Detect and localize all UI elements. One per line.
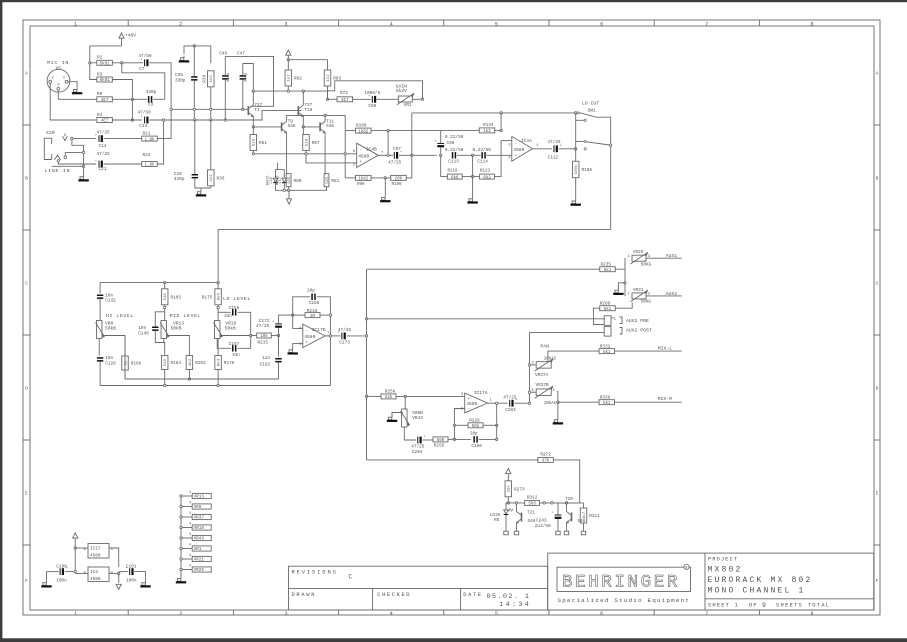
svg-text:4580: 4580	[90, 577, 101, 582]
resistor R175	[202, 289, 222, 305]
wire C7 to bus	[149, 63, 171, 110]
registered trademark symbol	[684, 564, 689, 569]
wire jack sleeve to ground rail	[52, 165, 84, 167]
resistor R82	[285, 70, 302, 86]
svg-text:R99: R99	[357, 183, 365, 187]
node node r83 bottom	[326, 98, 328, 100]
resistor R134	[479, 123, 495, 134]
svg-text:BEHRINGER: BEHRINGER	[562, 573, 680, 593]
wire R123 right up	[494, 141, 501, 177]
wire C14 to R21	[104, 138, 142, 140]
svg-text:510: 510	[164, 293, 168, 301]
svg-text:4: 4	[189, 502, 191, 506]
wire R273 node to R312	[508, 502, 524, 504]
ground fader ground	[387, 415, 397, 422]
svg-text:DRAWN: DRAWN	[292, 592, 317, 598]
wire rail to R256	[367, 395, 381, 397]
svg-text:R103: R103	[170, 295, 181, 300]
svg-text:PROJECT: PROJECT	[708, 557, 738, 563]
bracket marks	[620, 317, 623, 324]
diode C16 BAV21	[273, 174, 278, 186]
wire R119-R123	[462, 176, 479, 178]
jack tip contact	[63, 134, 74, 141]
svg-text:3: 3	[284, 21, 287, 27]
svg-text:2u2/50: 2u2/50	[535, 524, 551, 529]
svg-text:47/25: 47/25	[97, 152, 111, 157]
svg-text:VR19: VR19	[194, 526, 205, 531]
node n br1	[283, 189, 285, 191]
resistor R226	[468, 423, 483, 429]
svg-text:8: 8	[810, 611, 813, 617]
node node fb1	[453, 438, 455, 440]
svg-text:R81: R81	[331, 179, 339, 184]
wire plus input	[346, 162, 357, 164]
svg-text:R36: R36	[217, 176, 225, 181]
wire R332 to MIX-L	[615, 350, 682, 352]
potentiometer VR25	[628, 250, 652, 267]
svg-text:2: 2	[179, 611, 182, 617]
svg-text:4: 4	[189, 554, 191, 558]
svg-text:4: 4	[189, 544, 191, 548]
svg-text:VR43: VR43	[194, 537, 205, 542]
T21 emitter ground	[516, 525, 518, 529]
svg-text:10n: 10n	[138, 326, 146, 331]
svg-text:R134: R134	[483, 123, 494, 128]
potentiometer VR37A	[532, 356, 557, 378]
resistor R338	[599, 396, 615, 406]
wire C112 right	[559, 148, 576, 150]
svg-text:IC4B: IC4B	[366, 146, 377, 152]
wire R72 to C60	[353, 98, 371, 100]
wire VR13 bottom	[163, 339, 166, 355]
node node r67b	[305, 153, 307, 155]
wire C283 to pan rail	[514, 402, 529, 404]
node n b4	[224, 119, 226, 121]
svg-text:4580: 4580	[513, 147, 524, 153]
svg-text:-: -	[305, 329, 308, 334]
ground mute gnd 2	[514, 529, 518, 535]
svg-text:10kAC: 10kAC	[544, 356, 557, 361]
svg-text:4: 4	[553, 389, 555, 393]
svg-text:VR31: VR31	[633, 288, 644, 293]
resistor R51	[250, 135, 267, 151]
svg-text:0.22/50: 0.22/50	[445, 148, 464, 153]
wire R186 chain	[575, 149, 577, 162]
node n pan2	[528, 391, 530, 393]
supply +48V arrow	[119, 33, 124, 38]
svg-text:5: 5	[495, 611, 498, 617]
svg-text:R312: R312	[527, 495, 538, 500]
svg-text:VR25: VR25	[194, 568, 205, 573]
node n r82b	[287, 90, 289, 92]
svg-text:47/25: 47/25	[338, 328, 352, 333]
svg-text:LINE IN: LINE IN	[45, 168, 71, 174]
svg-text:AUX2 POST: AUX2 POST	[626, 328, 652, 334]
wire X5 pin1 to ground	[68, 82, 77, 88]
svg-text:OF: OF	[749, 603, 758, 609]
C196	[454, 438, 471, 440]
wire VR37A wiper to MIX-L	[548, 351, 599, 362]
svg-text:T20: T20	[565, 497, 573, 502]
svg-text:6: 6	[600, 21, 603, 27]
svg-text:VR37B: VR37B	[536, 383, 550, 388]
negative supply arrow	[288, 190, 290, 199]
svg-text:LO CUT: LO CUT	[582, 101, 599, 107]
node n mixr	[557, 401, 559, 403]
C166 loop	[293, 297, 311, 315]
svg-text:VR1: VR1	[194, 547, 202, 552]
node n b2	[194, 119, 196, 121]
node node vplus	[287, 59, 289, 61]
resistor R256	[381, 389, 396, 400]
wire riser from bypass	[500, 113, 502, 131]
capacitor C97	[388, 147, 402, 166]
resistor R255	[433, 437, 448, 443]
node n a25	[210, 108, 212, 110]
negative arrow ic power	[118, 574, 120, 584]
pot return VR8	[180, 502, 211, 510]
node node byp	[500, 112, 502, 114]
node node c35 top	[193, 45, 195, 47]
svg-text:R202: R202	[195, 361, 206, 366]
node node out	[387, 154, 389, 156]
wire C20 vertical	[194, 120, 196, 174]
wire R196 to output riser	[406, 155, 412, 178]
main post-EQ rail	[366, 269, 368, 460]
wire R83 bottom to R72 node	[327, 86, 329, 99]
svg-text:C162: C162	[260, 362, 271, 367]
node n a2	[193, 108, 195, 110]
+48V supply arrow	[121, 38, 123, 46]
ground filter ground	[467, 197, 477, 204]
op-amp IC4B	[353, 143, 383, 167]
svg-text:R119: R119	[448, 170, 459, 174]
C190	[47, 571, 59, 573]
svg-text:MX802: MX802	[708, 565, 743, 574]
node n eq1	[164, 281, 166, 283]
resistor R3	[97, 72, 113, 83]
svg-text:+: +	[514, 154, 517, 159]
wire top rail to R39	[194, 46, 211, 63]
svg-text:50kB: 50kB	[171, 325, 182, 331]
wire C173 to rail	[347, 335, 367, 337]
svg-text:VR37: VR37	[194, 516, 205, 521]
supply arrow ic power	[73, 533, 78, 538]
svg-text:50KG: 50KG	[641, 262, 652, 267]
wire riser to minus	[501, 140, 512, 142]
capacitor C3	[146, 90, 157, 107]
node node r215r	[277, 334, 279, 336]
resistor R9	[97, 92, 113, 103]
node node r51b	[252, 153, 254, 155]
capacitor C35	[175, 73, 198, 83]
wire R4 to C13	[112, 119, 141, 121]
svg-text:50kB: 50kB	[225, 325, 236, 331]
svg-text:CHECKED: CHECKED	[377, 592, 411, 598]
node n pan1	[528, 364, 530, 366]
svg-text:C16: C16	[270, 177, 274, 183]
supply arrow T block	[286, 50, 291, 55]
wire R215 right	[271, 335, 278, 337]
svg-text:+: +	[467, 397, 470, 402]
wire IC17 pins	[75, 547, 88, 549]
svg-text:20p: 20p	[307, 289, 315, 294]
capacitor C112	[547, 140, 561, 160]
column tick marks top/bottom	[128, 20, 759, 615]
svg-text:1.8k: 1.8k	[144, 137, 155, 142]
wire R3 right riser	[112, 80, 132, 121]
svg-text:SHEET 1: SHEET 1	[708, 603, 739, 609]
svg-text:B: B	[25, 175, 28, 181]
R100 feedback	[345, 130, 355, 132]
pot return VR43	[180, 533, 211, 541]
wire C47 top jog to T2 collector	[243, 64, 254, 92]
wire C3 wires	[132, 98, 147, 100]
svg-text:47/25: 47/25	[388, 161, 402, 166]
wire R168	[124, 336, 126, 357]
svg-text:2: 2	[189, 512, 191, 516]
node node minus in	[344, 153, 346, 155]
svg-text:R9: R9	[97, 92, 103, 97]
wire R22 up to row B	[157, 120, 163, 164]
node node filt gnd	[471, 175, 473, 177]
svg-text:VR1: VR1	[404, 103, 412, 108]
potentiometer VR37B	[532, 383, 557, 406]
svg-text:F: F	[25, 578, 28, 584]
svg-text:05.02. 1: 05.02. 1	[487, 593, 531, 601]
wire fader bottom	[404, 427, 416, 440]
svg-text:+: +	[95, 160, 97, 164]
wire IC4A out	[533, 148, 552, 150]
wire output column	[378, 154, 393, 156]
wire R176 bottom	[217, 370, 219, 386]
wire R269 left to switch	[594, 308, 605, 324]
svg-text:VR21: VR21	[194, 558, 205, 563]
svg-text:4: 4	[390, 611, 393, 617]
node node t20c	[565, 502, 567, 504]
svg-text:R269: R269	[600, 301, 611, 306]
svg-text:E: E	[25, 490, 28, 496]
svg-text:MONO CHANNEL 1: MONO CHANNEL 1	[708, 587, 806, 596]
wire C46 bottom to row B	[224, 80, 226, 120]
svg-text:MIC IN: MIC IN	[47, 60, 69, 66]
wire R269 to VR31 wiper	[615, 303, 632, 309]
svg-text:47/25: 47/25	[256, 324, 270, 329]
ground ic17b plus gnd	[288, 348, 298, 355]
svg-text:22k: 22k	[385, 395, 393, 400]
svg-text:C: C	[349, 573, 353, 580]
svg-text:B: B	[876, 175, 879, 181]
wire C98 bottom	[440, 147, 442, 155]
svg-text:MIX-L: MIX-L	[658, 346, 673, 352]
svg-text:R332: R332	[600, 345, 611, 350]
node n rail3	[365, 395, 367, 397]
diode top rail	[276, 169, 285, 171]
svg-text:12n: 12n	[262, 356, 270, 361]
svg-text:R21: R21	[143, 132, 151, 137]
capacitor C156	[224, 306, 240, 319]
node node ic17b out	[329, 335, 331, 337]
ground c190 gnd	[41, 581, 51, 588]
svg-text:IC4: IC4	[90, 570, 98, 575]
op-amp IC4A	[508, 136, 539, 161]
svg-text:56k: 56k	[472, 424, 480, 429]
svg-text:REVISIONS: REVISIONS	[292, 570, 338, 576]
svg-text:7: 7	[705, 21, 708, 27]
wire T9 emitter down	[286, 135, 288, 174]
resistor R202	[186, 356, 206, 370]
svg-text:C35: C35	[175, 73, 183, 78]
wire rail to R235	[367, 268, 600, 270]
resistor R215	[257, 333, 272, 339]
row tick marks left/right	[23, 125, 880, 545]
svg-text:10k: 10k	[260, 334, 268, 339]
capacitor C46	[222, 72, 231, 82]
resistor R2	[97, 56, 113, 67]
svg-text:R168: R168	[131, 362, 142, 367]
svg-text:C114: C114	[477, 159, 488, 164]
IC4B output riser	[411, 113, 413, 155]
wire T2 collector	[252, 91, 254, 103]
svg-text:925: 925	[326, 176, 330, 184]
svg-text:R226: R226	[469, 419, 480, 424]
resistor R311	[580, 508, 600, 523]
node node sw2 out	[610, 144, 612, 146]
resistor R22	[142, 153, 158, 168]
diode C17 BAV21	[282, 174, 287, 186]
svg-text:-: -	[359, 148, 362, 153]
svg-text:LO LEVEL: LO LEVEL	[223, 296, 251, 302]
pot return VR1	[180, 544, 211, 552]
svg-text:R80: R80	[294, 179, 302, 184]
node node 48v-R2	[89, 62, 91, 64]
svg-text:5k6: 5k6	[528, 502, 536, 507]
wire tip to C14	[73, 138, 96, 140]
wire C46 top jog to T2 base	[225, 56, 273, 106]
svg-text:5: 5	[495, 21, 498, 27]
svg-text:C7: C7	[139, 67, 145, 72]
svg-text:+: +	[359, 160, 362, 165]
svg-text:A: A	[876, 70, 879, 76]
supply arrow mute	[506, 469, 511, 474]
supply arrow down ic	[116, 584, 121, 589]
wire fader chain	[404, 396, 406, 409]
wire R338 to MIX-R	[615, 401, 682, 403]
node n a1	[170, 108, 172, 110]
svg-text:1k2: 1k2	[483, 129, 491, 134]
wire R100 right	[371, 130, 441, 132]
wire C21 to R22	[104, 163, 142, 165]
svg-text:3: 3	[614, 318, 616, 322]
svg-text:+: +	[141, 116, 143, 120]
svg-text:R196: R196	[392, 183, 403, 187]
T20 collector wire	[566, 503, 568, 509]
svg-text:8k4: 8k4	[217, 358, 222, 366]
svg-text:330p: 330p	[175, 78, 186, 83]
svg-text:PAN: PAN	[540, 343, 549, 349]
wire R51 bottom to minus row	[253, 151, 344, 154]
wire R119 left up	[441, 155, 448, 176]
pot return VR19	[180, 523, 211, 531]
svg-text:+48V: +48V	[125, 33, 136, 39]
potentiometer VR43	[401, 409, 424, 427]
wire T10 collector	[302, 91, 304, 103]
wire R255 right	[448, 438, 454, 440]
svg-text:C132: C132	[105, 299, 116, 304]
resistor R176	[215, 356, 235, 370]
node node r134r	[500, 129, 502, 131]
resistor R332	[599, 345, 615, 355]
row letters	[25, 70, 879, 584]
wire aux pots ground	[618, 283, 625, 289]
svg-text:MIX-R: MIX-R	[658, 396, 673, 402]
node node c190	[74, 570, 76, 572]
svg-text:1k2: 1k2	[287, 74, 292, 82]
fader ground stub	[392, 413, 403, 416]
svg-text:R67: R67	[312, 141, 320, 146]
svg-text:C196: C196	[471, 444, 482, 449]
wire ring contact up to node	[65, 152, 83, 156]
switch SW1 pole 1	[576, 112, 597, 122]
svg-text:47/50: 47/50	[138, 110, 152, 115]
wire VR8 wiper	[102, 336, 125, 379]
svg-text:X20: X20	[46, 130, 55, 136]
node n eq2	[217, 281, 219, 283]
capacitor C204	[411, 436, 425, 455]
svg-text:R215: R215	[258, 340, 269, 345]
svg-text:S46: S46	[326, 124, 334, 129]
node node lo top	[217, 306, 219, 308]
svg-text:1000/6: 1000/6	[364, 91, 380, 96]
resistor R81	[324, 174, 340, 187]
ground mute gnd 4	[564, 529, 568, 535]
node node mid top	[164, 306, 166, 308]
resistor R39	[202, 71, 214, 87]
resistor R269	[600, 301, 616, 312]
wire R256 to IC17A plus	[396, 395, 465, 397]
svg-text:100k: 100k	[574, 164, 579, 174]
svg-text:BAV21: BAV21	[266, 175, 270, 185]
svg-text:R176: R176	[224, 361, 235, 366]
wire C114 to IC4A	[487, 154, 512, 156]
svg-text:R216: R216	[307, 309, 318, 314]
svg-text:4k2: 4k2	[188, 358, 193, 366]
LED ground	[505, 520, 507, 529]
node node c3 left	[131, 98, 133, 100]
svg-text:4580: 4580	[304, 334, 315, 340]
svg-text:C166: C166	[309, 301, 320, 306]
IC17 power box	[84, 544, 114, 559]
svg-text:330p: 330p	[244, 72, 248, 82]
wire PRE from rail	[367, 318, 605, 320]
svg-text:C21: C21	[99, 167, 107, 172]
capacitor C47	[240, 72, 249, 82]
svg-text:9: 9	[762, 602, 766, 609]
node node c113r	[471, 154, 473, 156]
wire sw vertical	[575, 113, 577, 149]
capacitor C60	[364, 91, 380, 109]
ground mute gnd 3	[556, 529, 560, 535]
svg-text:10kAC: 10kAC	[544, 401, 557, 406]
svg-text:C3: C3	[148, 102, 154, 107]
title block divider	[704, 553, 706, 610]
svg-text:R175: R175	[202, 295, 213, 300]
wire R235 to VR25	[615, 258, 625, 269]
wire C113/C114 node down	[472, 155, 474, 176]
node n ebr1	[164, 384, 166, 386]
capacitor C146	[138, 326, 158, 337]
wire collectors to R100 column	[325, 115, 345, 177]
